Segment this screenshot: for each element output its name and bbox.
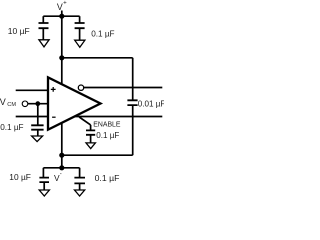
svg-text:0.1 µF: 0.1 µF [91, 29, 114, 38]
svg-text:0.1 µF: 0.1 µF [0, 123, 23, 132]
svg-text:+: + [63, 0, 67, 7]
svg-text:0.1 µF: 0.1 µF [96, 131, 119, 140]
svg-text:10 µF: 10 µF [9, 172, 31, 182]
svg-text:V: V [57, 2, 63, 12]
svg-text:CM: CM [7, 102, 16, 108]
svg-text:V: V [0, 97, 6, 107]
svg-text:10 µF: 10 µF [8, 26, 30, 36]
svg-text:0.1 µF: 0.1 µF [95, 173, 120, 183]
svg-text:ENABLE: ENABLE [93, 121, 121, 128]
svg-text:0.01 µF: 0.01 µF [138, 100, 164, 109]
svg-text:-: - [60, 172, 62, 178]
